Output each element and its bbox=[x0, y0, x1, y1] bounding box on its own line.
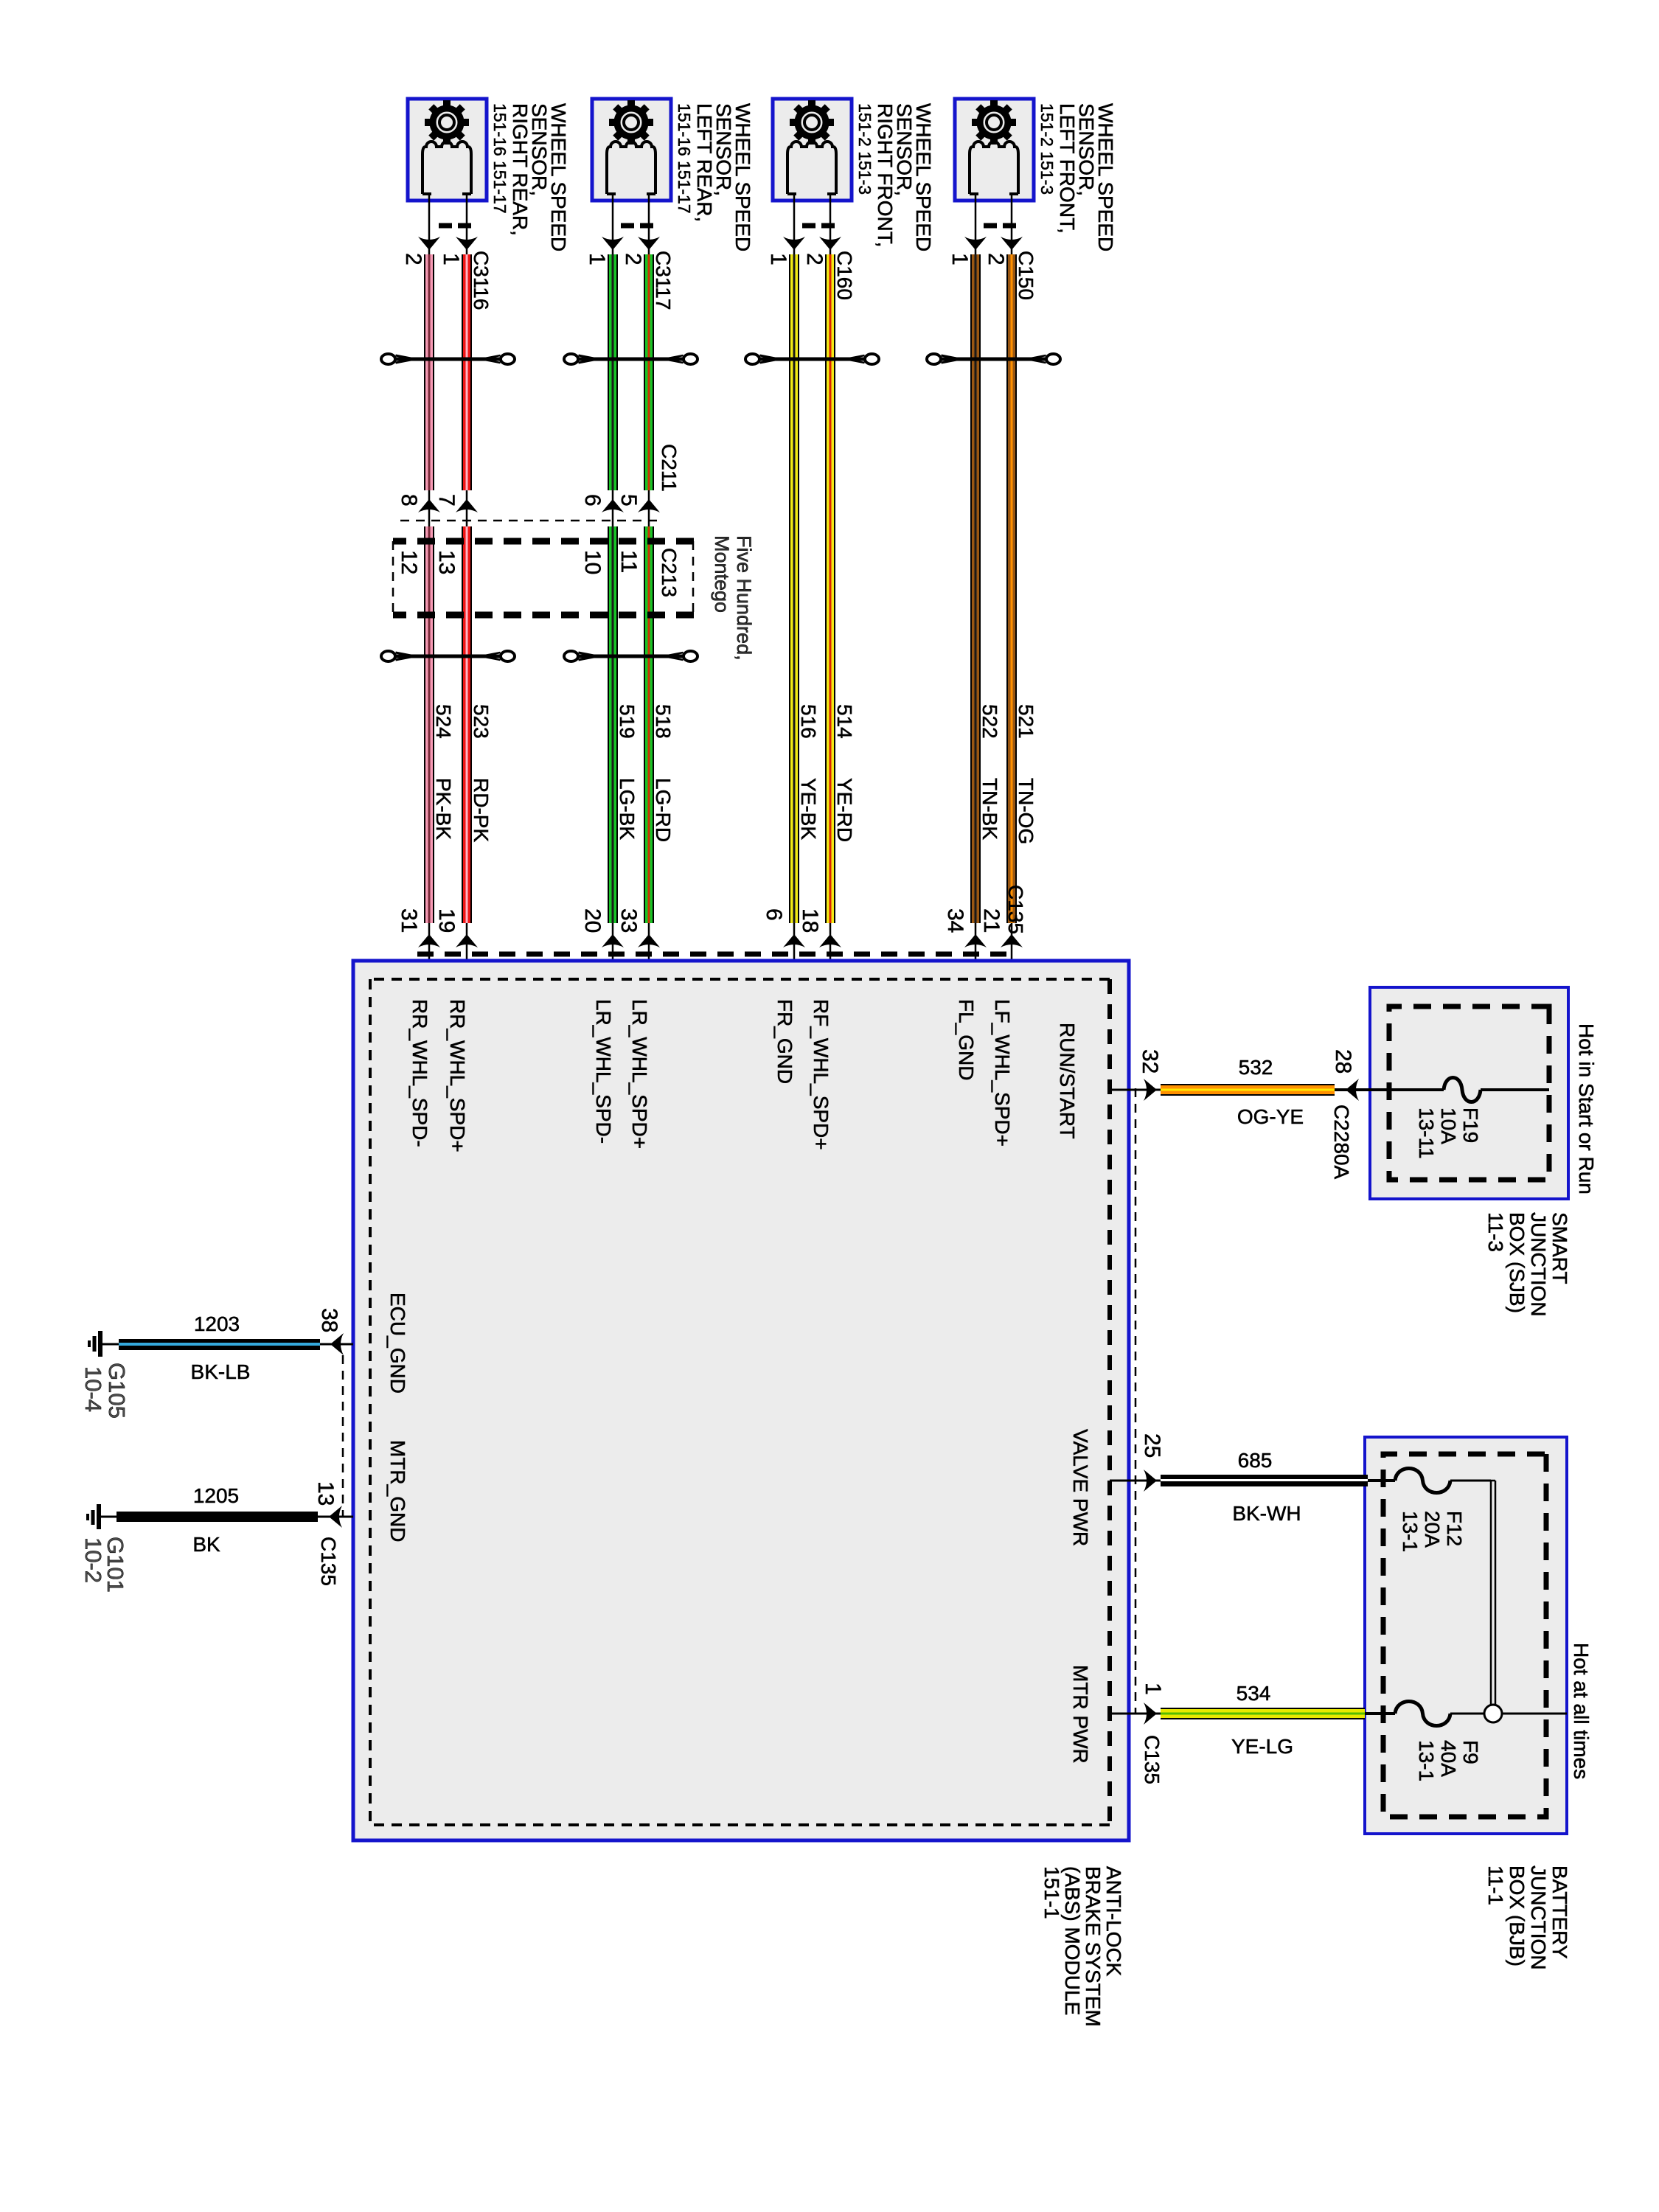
ABS module pin 33 arrow bbox=[638, 934, 660, 947]
svg-text:2: 2 bbox=[984, 253, 1008, 265]
svg-text:522: 522 bbox=[978, 704, 1001, 739]
connector C213 dashed box bbox=[393, 541, 694, 615]
wire 1203 BK-LB bbox=[119, 1339, 320, 1350]
svg-text:151-1: 151-1 bbox=[1040, 1866, 1063, 1919]
connector C135 bold dashed line at module sensor pins bbox=[413, 952, 1006, 957]
connector C211 dashed line bbox=[394, 520, 657, 522]
svg-text:1: 1 bbox=[439, 253, 463, 265]
svg-text:1203: 1203 bbox=[194, 1312, 240, 1335]
svg-text:FR_GND: FR_GND bbox=[773, 999, 796, 1084]
wheel speed sensor RR box bbox=[408, 99, 487, 201]
svg-text:LF_WHL_SPD+: LF_WHL_SPD+ bbox=[991, 999, 1014, 1147]
ABS module pin 18 arrow bbox=[819, 934, 841, 947]
svg-text:40A: 40A bbox=[1437, 1740, 1460, 1777]
wire 523 RD-PK from sensor RR to ABS module pin 19 bbox=[462, 194, 472, 979]
connector C211 pin numbers bbox=[580, 494, 641, 507]
svg-text:518: 518 bbox=[652, 704, 675, 739]
svg-text:2: 2 bbox=[802, 253, 827, 265]
svg-text:JUNCTION: JUNCTION bbox=[1527, 1212, 1550, 1317]
sensor LF gear icon bbox=[972, 100, 1016, 145]
svg-text:F9: F9 bbox=[1459, 1740, 1482, 1764]
sensor LF pin numbers bbox=[947, 253, 1008, 265]
svg-text:RR_WHL_SPD-: RR_WHL_SPD- bbox=[408, 999, 431, 1147]
svg-text:C150: C150 bbox=[1015, 251, 1037, 300]
svg-text:LEFT FRONT,: LEFT FRONT, bbox=[1056, 103, 1079, 234]
ABS module pin 21 arrow bbox=[1001, 934, 1023, 947]
svg-text:BOX (SJB): BOX (SJB) bbox=[1506, 1212, 1528, 1313]
splice symbol on pair RF bbox=[751, 358, 874, 361]
wire 519 LG-BK from sensor LR to ABS module pin 20 bbox=[608, 194, 618, 979]
svg-text:OG-YE: OG-YE bbox=[1237, 1105, 1304, 1128]
svg-text:PK-BK: PK-BK bbox=[432, 778, 455, 840]
svg-text:TN-OG: TN-OG bbox=[1015, 778, 1037, 844]
splice symbol on pair LF bbox=[933, 358, 1055, 361]
svg-text:11-1: 11-1 bbox=[1484, 1865, 1507, 1905]
SJB inner dashed border bbox=[1389, 1006, 1549, 1180]
svg-text:13-1: 13-1 bbox=[1415, 1740, 1438, 1781]
svg-text:10-2: 10-2 bbox=[80, 1537, 106, 1583]
fuse F19 label bbox=[1415, 1107, 1482, 1159]
battery junction box (BJB) bbox=[1365, 1437, 1567, 1834]
svg-text:2: 2 bbox=[621, 253, 645, 265]
ABS module pin 31 arrow bbox=[418, 934, 440, 947]
junction node circle bbox=[1484, 1705, 1502, 1722]
ground label G101 10-2 bbox=[80, 1537, 128, 1593]
svg-text:RIGHT FRONT,: RIGHT FRONT, bbox=[874, 103, 897, 247]
svg-text:13-11: 13-11 bbox=[1415, 1107, 1438, 1159]
connector C211 arrows bbox=[602, 499, 660, 512]
svg-text:25: 25 bbox=[1140, 1433, 1164, 1458]
svg-text:ECU_GND: ECU_GND bbox=[386, 1293, 409, 1394]
svg-text:BK: BK bbox=[192, 1533, 220, 1556]
wire 521 TN-OG from sensor LF to ABS module pin 21 bbox=[1006, 194, 1017, 979]
svg-text:ANTI-LOCK: ANTI-LOCK bbox=[1102, 1866, 1125, 1977]
ABS module name label bbox=[1040, 1866, 1125, 2027]
connector dash at sensor RF bbox=[801, 223, 835, 229]
svg-text:LR_WHL_SPD+: LR_WHL_SPD+ bbox=[628, 999, 651, 1149]
svg-text:11-3: 11-3 bbox=[1484, 1212, 1507, 1252]
fuse F9 40A bbox=[1365, 1702, 1484, 1726]
svg-text:523: 523 bbox=[470, 704, 493, 739]
svg-text:1: 1 bbox=[947, 253, 972, 265]
diagram rotated group: landscape 3000x2250 drawn, rotated 90deg CW into portrait page bbox=[80, 99, 1598, 2027]
connector dash at sensor RR bbox=[437, 223, 471, 229]
svg-text:BK-LB: BK-LB bbox=[191, 1360, 251, 1383]
svg-text:12: 12 bbox=[397, 550, 421, 574]
ABS module pin 20 arrow bbox=[602, 934, 624, 947]
sensor LR connector arrows bbox=[602, 237, 660, 250]
svg-text:524: 524 bbox=[432, 704, 455, 739]
svg-text:RR_WHL_SPD+: RR_WHL_SPD+ bbox=[446, 999, 469, 1152]
svg-text:RUN/START: RUN/START bbox=[1056, 1023, 1079, 1139]
wire 514 YE-RD from sensor RF to ABS module pin 18 bbox=[825, 194, 835, 979]
svg-text:151-2 151-3: 151-2 151-3 bbox=[1037, 103, 1057, 195]
feed line Hot at all times bbox=[1502, 1713, 1567, 1715]
svg-text:685: 685 bbox=[1238, 1449, 1273, 1472]
svg-text:18: 18 bbox=[798, 908, 822, 933]
svg-text:G105: G105 bbox=[104, 1363, 130, 1419]
BJB name label bbox=[1484, 1865, 1571, 1970]
svg-text:SMART: SMART bbox=[1548, 1212, 1571, 1284]
svg-text:BRAKE SYSTEM: BRAKE SYSTEM bbox=[1082, 1866, 1105, 2027]
svg-text:C3117: C3117 bbox=[652, 251, 675, 310]
wire 534 YE-LG bbox=[1161, 1708, 1365, 1719]
connector C211 arrows bbox=[418, 499, 478, 512]
svg-text:1: 1 bbox=[1141, 1683, 1165, 1695]
svg-text:7: 7 bbox=[434, 494, 459, 507]
ABS module pin 6 arrow bbox=[783, 934, 805, 947]
svg-text:FL_GND: FL_GND bbox=[955, 999, 978, 1080]
SJB pin 28 arrow bbox=[1346, 1079, 1359, 1101]
sensor LR label bbox=[675, 103, 754, 251]
svg-text:YE-LG: YE-LG bbox=[1231, 1735, 1293, 1758]
svg-text:C211: C211 bbox=[658, 444, 681, 492]
svg-text:38: 38 bbox=[317, 1308, 341, 1332]
wheel speed sensor LF box bbox=[955, 99, 1034, 201]
wire 685 lead to module bbox=[1157, 1480, 1161, 1482]
svg-text:31: 31 bbox=[397, 908, 421, 933]
ABS module inner dashed border bbox=[370, 979, 1110, 1825]
ABS module pin 34 arrow bbox=[964, 934, 987, 947]
sensor RF pin numbers bbox=[766, 253, 827, 265]
svg-text:8: 8 bbox=[397, 494, 421, 507]
svg-text:13: 13 bbox=[313, 1481, 338, 1506]
sensor LR pin numbers bbox=[585, 253, 645, 265]
svg-text:151-16 151-17: 151-16 151-17 bbox=[675, 103, 694, 214]
RUN/START pin 32 wire bbox=[1110, 1089, 1157, 1091]
wire 532 OG-YE bbox=[1161, 1084, 1335, 1096]
sensor RF label bbox=[855, 103, 935, 251]
bus bar from F12 to junction bbox=[1491, 1481, 1495, 1709]
SJB name label bbox=[1484, 1212, 1571, 1317]
connector C135 dashed line at ground pins bbox=[342, 1355, 344, 1517]
MTR_GND pin 13 arrow bbox=[329, 1506, 342, 1528]
sensor LF connector arrows bbox=[964, 237, 1023, 250]
svg-text:JUNCTION: JUNCTION bbox=[1527, 1865, 1550, 1970]
svg-text:6: 6 bbox=[762, 908, 786, 921]
svg-text:LEFT REAR,: LEFT REAR, bbox=[693, 103, 716, 222]
ground label G105 10-4 bbox=[80, 1363, 130, 1419]
svg-text:13: 13 bbox=[434, 550, 459, 574]
svg-text:21: 21 bbox=[979, 908, 1004, 933]
ECU_GND pin 38 wire bbox=[320, 1343, 353, 1346]
svg-text:MTR_GND: MTR_GND bbox=[386, 1440, 409, 1542]
svg-text:YE-BK: YE-BK bbox=[797, 778, 820, 840]
fuse F12 20A bbox=[1368, 1469, 1491, 1493]
sensor LF label bbox=[1037, 103, 1117, 251]
svg-text:521: 521 bbox=[1015, 704, 1037, 739]
svg-text:1205: 1205 bbox=[193, 1484, 239, 1507]
MTR_GND pin 13 wire bbox=[318, 1516, 353, 1518]
sensor RF gear icon bbox=[790, 100, 834, 145]
svg-text:(ABS) MODULE: (ABS) MODULE bbox=[1061, 1866, 1084, 2015]
svg-text:Five Hundred,: Five Hundred, bbox=[733, 535, 755, 661]
svg-text:Hot at all times: Hot at all times bbox=[1570, 1643, 1593, 1779]
wire 685 BK-WH bbox=[1161, 1475, 1368, 1486]
sensor RR label bbox=[490, 103, 570, 251]
svg-text:33: 33 bbox=[616, 908, 641, 933]
svg-text:C160: C160 bbox=[833, 251, 856, 300]
svg-text:514: 514 bbox=[833, 704, 856, 739]
wheel speed sensor LR box bbox=[592, 99, 671, 201]
sensor LR gear icon bbox=[609, 100, 653, 145]
svg-text:516: 516 bbox=[797, 704, 820, 739]
wire 1205 BK bbox=[116, 1512, 318, 1522]
svg-text:YE-RD: YE-RD bbox=[833, 778, 856, 842]
connector C213 pin numbers bbox=[397, 550, 459, 574]
connector dash at sensor LF bbox=[983, 223, 1016, 229]
svg-text:C135: C135 bbox=[1004, 885, 1027, 934]
svg-text:20: 20 bbox=[580, 908, 605, 933]
svg-text:F12: F12 bbox=[1443, 1511, 1466, 1546]
svg-text:C3116: C3116 bbox=[470, 251, 493, 310]
wire 532 lead to module bbox=[1157, 1089, 1161, 1091]
sensor LR connector cup bbox=[607, 142, 655, 194]
ground G105 symbol bbox=[89, 1331, 119, 1357]
svg-text:11: 11 bbox=[616, 550, 641, 573]
svg-text:2: 2 bbox=[401, 253, 425, 265]
svg-text:151-16 151-17: 151-16 151-17 bbox=[490, 103, 509, 214]
svg-text:151-2 151-3: 151-2 151-3 bbox=[855, 103, 874, 195]
sensor RF connector cup bbox=[787, 142, 836, 194]
sensor RF connector arrows bbox=[783, 237, 841, 250]
svg-text:C2280A: C2280A bbox=[1330, 1105, 1353, 1180]
wire 522 TN-BK from sensor LF to ABS module pin 34 bbox=[970, 194, 981, 979]
fuse F9 label bbox=[1415, 1740, 1482, 1781]
svg-text:13-1: 13-1 bbox=[1399, 1511, 1422, 1552]
connector dash at sensor LR bbox=[620, 223, 653, 229]
svg-text:RF_WHL_SPD+: RF_WHL_SPD+ bbox=[810, 999, 832, 1150]
svg-text:10: 10 bbox=[580, 550, 605, 574]
ABS module pin 19 arrow bbox=[456, 934, 478, 947]
svg-text:C135: C135 bbox=[317, 1537, 340, 1586]
RUN/START pin 32 arrow bbox=[1144, 1079, 1157, 1101]
svg-text:TN-BK: TN-BK bbox=[978, 778, 1001, 840]
svg-text:Montego: Montego bbox=[711, 535, 733, 613]
connector C211 pin numbers bbox=[397, 494, 459, 507]
note Five Hundred, Montego bbox=[711, 535, 755, 661]
svg-text:Hot in Start or Run: Hot in Start or Run bbox=[1575, 1023, 1598, 1194]
ABS module box bbox=[353, 961, 1129, 1840]
fuse F19 10A bbox=[1335, 1078, 1549, 1102]
svg-text:C213: C213 bbox=[658, 548, 681, 597]
svg-text:C135: C135 bbox=[1141, 1735, 1164, 1784]
svg-text:1: 1 bbox=[585, 253, 609, 265]
wire 518 LG-RD from sensor LR to ABS module pin 33 bbox=[644, 194, 654, 979]
svg-text:LR_WHL_SPD-: LR_WHL_SPD- bbox=[592, 999, 615, 1144]
sensor RR pin numbers bbox=[401, 253, 463, 265]
wheel speed sensor RF box bbox=[773, 99, 852, 201]
smart junction box (SJB) bbox=[1370, 987, 1568, 1199]
svg-text:532: 532 bbox=[1239, 1056, 1273, 1079]
sensor RR connector cup bbox=[422, 142, 471, 194]
VALVE PWR pin 25 arrow bbox=[1144, 1470, 1157, 1492]
svg-text:534: 534 bbox=[1237, 1682, 1271, 1705]
svg-text:32: 32 bbox=[1138, 1049, 1162, 1074]
svg-text:RIGHT REAR,: RIGHT REAR, bbox=[509, 103, 532, 236]
sensor RR connector arrows bbox=[418, 237, 478, 250]
ECU_GND pin 38 arrow bbox=[330, 1333, 344, 1355]
svg-text:34: 34 bbox=[943, 908, 967, 933]
VALVE PWR pin 25 wire bbox=[1110, 1480, 1157, 1482]
svg-text:20A: 20A bbox=[1421, 1511, 1444, 1548]
wire 516 YE-BK from sensor RF to ABS module pin 6 bbox=[789, 194, 799, 979]
svg-text:10A: 10A bbox=[1437, 1107, 1460, 1144]
svg-text:VALVE PWR: VALVE PWR bbox=[1069, 1429, 1092, 1546]
second splice symbol bbox=[570, 655, 692, 658]
svg-text:519: 519 bbox=[616, 704, 639, 739]
svg-text:F19: F19 bbox=[1459, 1107, 1482, 1143]
second splice symbol bbox=[387, 655, 509, 658]
svg-text:1: 1 bbox=[766, 253, 790, 265]
splice symbol on pair LR bbox=[570, 358, 692, 361]
wire 534 lead to module bbox=[1157, 1713, 1161, 1715]
BJB inner dashed border bbox=[1383, 1454, 1546, 1817]
svg-text:19: 19 bbox=[434, 908, 459, 933]
svg-text:BK-WH: BK-WH bbox=[1232, 1502, 1301, 1525]
svg-text:10-4: 10-4 bbox=[80, 1366, 106, 1412]
svg-text:5: 5 bbox=[616, 494, 641, 507]
svg-text:MTR PWR: MTR PWR bbox=[1069, 1665, 1092, 1764]
connector C213 pin numbers bbox=[580, 550, 641, 574]
svg-text:BOX (BJB): BOX (BJB) bbox=[1506, 1865, 1528, 1966]
svg-text:RD-PK: RD-PK bbox=[470, 778, 493, 842]
svg-text:BATTERY: BATTERY bbox=[1548, 1865, 1571, 1959]
connector C135 dashed line at module power pins bbox=[1135, 1088, 1137, 1714]
wire 524 PK-BK from sensor RR to ABS module pin 31 bbox=[424, 194, 434, 979]
splice symbol on pair RR bbox=[387, 358, 509, 361]
svg-text:LG-RD: LG-RD bbox=[652, 778, 675, 842]
fuse F12 label bbox=[1399, 1511, 1466, 1552]
sensor RR gear icon bbox=[425, 100, 469, 145]
MTR PWR pin 1 arrow bbox=[1144, 1703, 1157, 1725]
MTR PWR pin 1 wire bbox=[1110, 1713, 1157, 1715]
svg-text:6: 6 bbox=[580, 494, 605, 507]
svg-text:28: 28 bbox=[1331, 1049, 1355, 1074]
svg-text:LG-BK: LG-BK bbox=[616, 778, 639, 840]
ground G101 symbol bbox=[88, 1504, 116, 1529]
sensor LF connector cup bbox=[970, 142, 1018, 194]
